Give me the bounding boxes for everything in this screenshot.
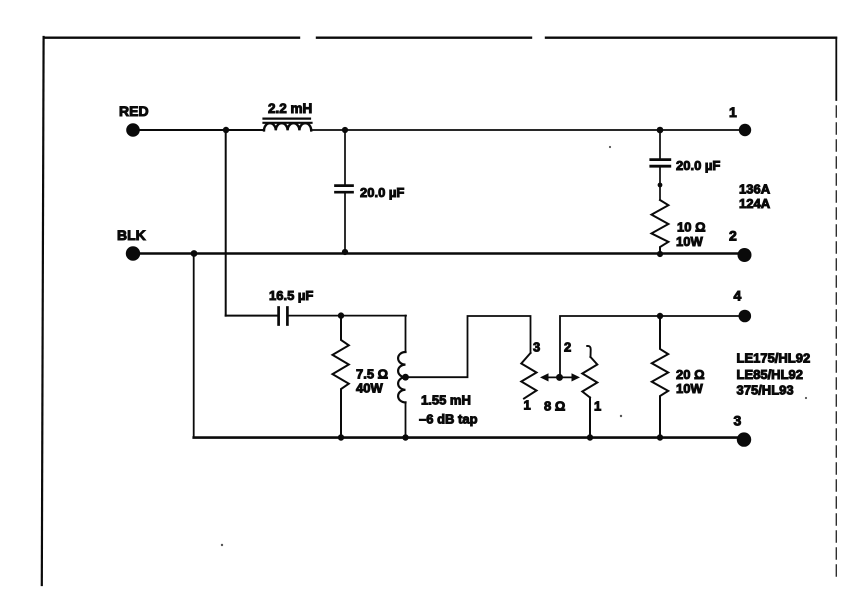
svg-text:20 Ω: 20 Ω <box>676 367 705 382</box>
svg-text:136A: 136A <box>739 182 771 197</box>
svg-text:–6 dB tap: –6 dB tap <box>419 412 478 427</box>
node junction at (345,130) <box>342 127 348 133</box>
wire L-pad terminal 2 riser and tweeter feed <box>560 316 739 377</box>
node junction at (405.5,437.5) <box>402 434 408 440</box>
node junction at (345,252) <box>342 249 348 255</box>
svg-text:20.0 µF: 20.0 µF <box>360 185 404 200</box>
terminal 4 <box>734 288 752 323</box>
node junction at (660,316) <box>657 313 663 319</box>
svg-text:3: 3 <box>734 413 742 429</box>
svg-text:2: 2 <box>564 340 571 355</box>
L-pad section 3: resistor zigzag left <box>521 340 540 413</box>
page frame right border <box>835 38 837 101</box>
svg-text:10 Ω: 10 Ω <box>677 220 706 235</box>
page frame top border <box>44 37 836 39</box>
svg-text:16.5 µF: 16.5 µF <box>269 288 313 303</box>
terminal 3 <box>734 413 752 447</box>
terminal 2 <box>729 228 752 263</box>
terminal RED <box>119 103 149 137</box>
node junction at (341,437.5) <box>338 434 344 440</box>
resistor R2 7.5 ohm 40W <box>333 316 389 437</box>
svg-text:4: 4 <box>734 288 742 304</box>
svg-text:8 Ω: 8 Ω <box>544 399 565 414</box>
wire vertical from BLK junction down to bottom rail <box>193 254 195 438</box>
svg-text:375/HL93: 375/HL93 <box>737 383 794 398</box>
node junction at (660,130) <box>657 127 664 134</box>
page frame left border <box>42 37 44 585</box>
svg-text:1: 1 <box>594 399 601 414</box>
svg-text:1: 1 <box>524 398 531 413</box>
wire tap elbow to L-pad terminal 3 <box>406 316 531 377</box>
svg-text:BLK: BLK <box>117 227 146 243</box>
svg-text:10W: 10W <box>676 381 703 396</box>
terminal BLK <box>117 227 146 261</box>
svg-text:124A: 124A <box>739 196 771 211</box>
svg-text:10W: 10W <box>676 234 703 249</box>
node junction at (660,254) <box>657 251 663 257</box>
autotransformer L2 1.55 mH with -6 dB tap <box>398 316 477 437</box>
svg-text:1: 1 <box>729 104 737 120</box>
resistor R1 10 ohm 10W <box>652 200 706 252</box>
svg-text:3: 3 <box>533 340 540 355</box>
node junction at (590,437.5) <box>587 434 593 440</box>
node tap junction at (405.5,377.2) <box>402 374 409 381</box>
svg-text:20.0 µF: 20.0 µF <box>676 158 720 173</box>
svg-text:RED: RED <box>119 103 149 119</box>
wire BLK bus <box>140 252 739 254</box>
wire RED bus right <box>311 129 739 131</box>
L-pad wiper arrow (terminal 2) <box>540 340 580 414</box>
node junction at (194,253.5) <box>191 250 198 257</box>
label driver codes 136A 124A <box>739 182 771 212</box>
svg-text:7.5 Ω: 7.5 Ω <box>356 367 388 382</box>
L-pad section 1: resistor zigzag right <box>582 346 601 437</box>
label driver models LE175/HL92 LE85/HL92 375/HL93 <box>737 351 811 398</box>
scan speckles <box>221 544 223 546</box>
capacitor C3 16.5 uF <box>226 288 406 325</box>
svg-text:2: 2 <box>729 228 737 244</box>
svg-text:40W: 40W <box>356 381 383 396</box>
wire vertical from RED junction down to HP section <box>225 130 227 316</box>
wire RED bus left <box>139 129 264 131</box>
capacitor C2 20.0 uF (tweeter series) <box>651 131 721 199</box>
node junction small at (660,185) <box>658 183 663 188</box>
node junction at (660,437.5) <box>657 434 663 440</box>
wire bottom rail <box>194 436 738 439</box>
resistor R3 20 ohm 10W <box>652 316 705 437</box>
capacitor C1 20.0 uF (midrange shunt) <box>336 130 405 251</box>
node junction at (341,315.6) <box>338 312 344 318</box>
svg-text:LE85/HL92: LE85/HL92 <box>737 367 803 382</box>
node junction at (226,130) <box>223 127 229 133</box>
inductor L1 2.2 mH <box>264 101 313 130</box>
svg-text:1.55 mH: 1.55 mH <box>421 393 471 408</box>
svg-text:LE175/HL92: LE175/HL92 <box>737 351 811 366</box>
svg-text:2.2 mH: 2.2 mH <box>268 101 312 116</box>
terminal 1 <box>729 104 751 136</box>
